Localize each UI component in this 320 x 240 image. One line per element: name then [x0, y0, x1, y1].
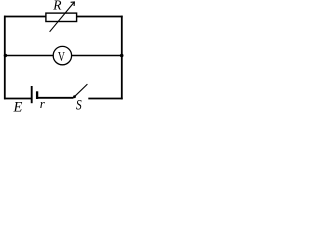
wire bottom-left segment: [4, 98, 32, 100]
battery E short plate: [36, 91, 38, 99]
battery E long plate: [31, 86, 33, 103]
node left junction: [4, 54, 7, 57]
wire bottom-right segment: [88, 98, 122, 100]
switch S lever: [75, 84, 88, 96]
svg-text:S: S: [76, 97, 82, 112]
rheostat R body: [46, 2, 77, 32]
wire top-right segment: [76, 16, 122, 18]
svg-text:V: V: [58, 50, 66, 65]
svg-text:R: R: [52, 0, 62, 13]
wire middle (voltmeter branch): [5, 55, 122, 57]
wire left vertical: [4, 16, 6, 100]
voltmeter V: [53, 46, 71, 64]
wire right vertical: [121, 16, 123, 100]
wire bottom-middle segment: [38, 97, 74, 99]
switch S pivot: [73, 95, 76, 98]
svg-text:E: E: [13, 100, 23, 112]
wire top-left segment: [4, 16, 47, 18]
node right junction: [120, 54, 124, 58]
